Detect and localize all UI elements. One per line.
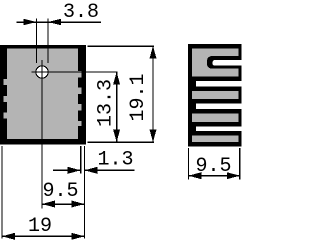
extension line right of 3.8: [47, 19, 49, 64]
svg-text:19.1: 19.1: [127, 73, 150, 121]
side view fin slot unit 3 (black bands): [192, 122, 241, 136]
dimension line 9.5 side: [188, 175, 239, 177]
arrow 9.5 front left (pointing left): [42, 201, 55, 208]
side view outer (black): [188, 44, 242, 146]
left fin notch 2: [4, 96, 8, 102]
arrow 3.8 right (pointing left): [48, 19, 61, 26]
front view body gray fill: [7, 49, 78, 139]
extension line for 1.3 (inner): [80, 146, 82, 174]
bottom-left extension line (body left edge): [1, 146, 3, 239]
bottom extension line for 19.1 / 13.3: [88, 141, 154, 143]
dimension line 19: [2, 235, 85, 237]
arrow 3.8 left (pointing right): [24, 19, 37, 26]
side view fin slot 3 (white, open right): [196, 127, 243, 132]
dimension 1.3 left tail: [53, 169, 81, 171]
right fin notch 1: [78, 71, 82, 77]
dimension line 13.3: [116, 72, 118, 142]
svg-text:9.5: 9.5: [42, 180, 78, 203]
side view top folded fin (black): [207, 56, 242, 69]
right fin notch 3: [78, 104, 82, 110]
arrow 19 right (pointing right): [71, 233, 84, 240]
extension line left of 3.8: [36, 19, 38, 64]
side view fin slot 2 (white, open right): [196, 103, 243, 109]
arrow 1.3 right (pointing left): [84, 167, 97, 174]
shared right extension line (body right edge): [83, 146, 85, 239]
side view fin slot 1 (white, open right): [196, 81, 243, 86]
svg-text:3.8: 3.8: [63, 1, 99, 24]
svg-text:9.5: 9.5: [195, 155, 231, 178]
arrow 13.3 top (pointing up): [113, 72, 120, 85]
dimension line 3.8: [16, 21, 101, 23]
arrow 19.1 bottom (pointing down): [150, 130, 157, 143]
arrow 9.5 side right (pointing right): [227, 172, 240, 179]
arrow 19.1 top (pointing up): [150, 46, 157, 59]
side 9.5 extension line left: [187, 148, 189, 180]
side view fin slot unit 2 (black bands): [192, 99, 241, 114]
arrow 13.3 bottom (pointing down): [113, 130, 120, 143]
right fin notch 2: [78, 88, 82, 94]
side view top folded fin slot (white): [212, 60, 243, 65]
side 9.5 extension line right: [239, 148, 241, 180]
vertical centerline through hole down to 9.5 dimension: [41, 60, 43, 209]
right fin notch 4: [78, 121, 82, 126]
arrow 19 left (pointing left): [2, 233, 15, 240]
side view gray fill: [192, 49, 239, 142]
dimension line 9.5 (front): [42, 203, 84, 205]
side view fin slot unit 1 (black bands): [192, 76, 241, 91]
svg-text:19: 19: [28, 215, 52, 238]
front view body outline (black): [0, 45, 86, 145]
arrow 9.5 side left (pointing left): [188, 172, 201, 179]
left fin notch 1: [4, 79, 8, 85]
mounting hole: [36, 66, 48, 78]
top extension line for 19.1: [88, 45, 154, 47]
arrow 9.5 front right (pointing right): [71, 201, 84, 208]
arrow 1.3 left (pointing right): [68, 167, 81, 174]
left fin notch 3: [4, 112, 8, 118]
horizontal centerline through hole extending to 13.3 dimension: [32, 71, 118, 73]
dimension 1.3 right tail: [84, 169, 134, 171]
dimension line 19.1: [152, 46, 154, 142]
svg-text:13.3: 13.3: [95, 79, 118, 127]
svg-text:1.3: 1.3: [97, 149, 133, 172]
